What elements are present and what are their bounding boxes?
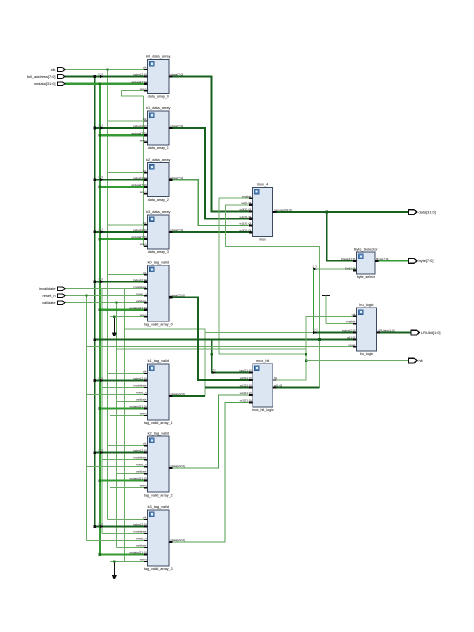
svg-text:clk: clk [143,221,147,225]
svg-text:wren: wren [140,242,147,246]
block mux_4 U9 [239,183,291,242]
svg-text:[2:0]: [2:0] [98,522,103,526]
wire wrdata feed to k1_tag_valid (bus) [99,407,148,410]
wire clk feed to k3_tag_valid [108,519,148,521]
wire wrdata feed to k1_data_array (bus) [99,134,148,137]
svg-text:enable: enable [242,194,252,198]
svg-text:Byte[7:0]: Byte[7:0] [376,257,388,261]
wire k2_data rdata to mux_4 w2 [169,180,252,226]
svg-text:wrdata[21:0]: wrdata[21:0] [129,477,146,481]
wire muxout to data output port (bus) [273,211,409,214]
wire tag+w dark row (bus) [93,338,356,341]
svg-text:reset_n: reset_n [136,292,147,296]
wire wren feed to k2_data_array [143,193,147,195]
svg-text:tag[21:0]: tag[21:0] [239,369,251,373]
svg-text:byte_select: byte_select [357,275,375,279]
svg-text:invalidate: invalidate [39,286,55,291]
net label tag arrow [212,368,216,374]
wire lru reset row [87,346,357,348]
svg-text:index[2:0]: index[2:0] [133,278,147,282]
block k3_data_array U4 [131,210,183,254]
svg-text:validate: validate [136,398,147,402]
svg-text:wren: wren [140,313,147,317]
wire index feed to k2_data_array (bus) [93,175,147,181]
svg-text:index[2:0]: index[2:0] [133,377,147,381]
wire validate feed to k2_tag_valid [116,473,147,475]
output port hit [409,358,424,363]
wire wren feed to k0_data_array [122,90,148,92]
svg-text:mux_4: mux_4 [257,183,268,187]
svg-text:invalidate: invalidate [133,456,146,460]
block mux_hit U12 [239,359,282,412]
wire wrdata feed to k2_data_array (bus) [99,186,148,189]
wire LRUbits to output port (bus) [376,332,411,334]
svg-text:data_array_1: data_array_1 [148,146,169,150]
input port wrdata[31:0] [34,81,65,86]
svg-text:k2_tag_valid: k2_tag_valid [148,431,169,435]
svg-text:invalidate: invalidate [133,384,146,388]
svg-text:[2:0]: [2:0] [98,175,103,179]
svg-text:byte[7:0]: byte[7:0] [419,258,434,263]
svg-text:full_address[7:0]: full_address[7:0] [27,74,56,79]
svg-text:[2:0]: [2:0] [98,376,103,380]
wire invalidate feed to k2_tag_valid [102,459,148,461]
svg-text:rdata[7:0]: rdata[7:0] [170,124,183,128]
wire mux_hit w[1:0] output (bus) [273,387,320,389]
svg-text:reset: reset [349,343,356,347]
svg-text:[1:0]: [1:0] [313,265,318,268]
wire clk feed to k3_data_array [108,224,148,226]
junction dot hit/enable [305,353,307,355]
wire wren feed to k3_data_array [143,245,147,247]
wire index bus trunk (full_address) vertical x=95 [94,77,96,527]
svg-text:reset_n: reset_n [136,391,147,395]
svg-text:w1[21:0]: w1[21:0] [240,384,252,388]
output port data[31:0] [409,209,436,214]
wire mux_4 enable from hit net [219,198,306,354]
svg-text:w1[31:0]: w1[31:0] [239,215,251,219]
svg-text:tag_valid_array_1: tag_valid_array_1 [144,421,173,425]
svg-text:tag_valid_array_3: tag_valid_array_3 [144,567,173,571]
wire validate input row [65,302,148,304]
svg-text:rdata[7:0]: rdata[7:0] [170,73,183,77]
svg-text:[2:0]: [2:0] [313,329,318,332]
svg-text:index[2:0]: index[2:0] [133,228,147,232]
wire wrdata feed to k3_data_array (bus) [99,238,148,241]
wire hit to output port [306,360,408,362]
wire reset_n input row [65,295,148,297]
wire wren feed to k3_tag_valid [110,561,148,563]
wire tag wren trunk vertical [124,289,126,562]
output port byte[7:0] [409,258,434,263]
svg-text:w3[31:0]: w3[31:0] [239,229,251,233]
wire reset_n feed to k2_tag_valid [87,466,148,468]
block k2_tag_valid U7 [129,431,185,497]
input port clk [51,67,65,72]
svg-text:tag_valid_array_2: tag_valid_array_2 [144,493,173,497]
svg-text:w0[31:0]: w0[31:0] [239,208,251,212]
svg-text:clk: clk [143,370,147,374]
svg-text:index[2:0]: index[2:0] [133,124,147,128]
svg-text:[2:0]: [2:0] [98,448,103,452]
svg-text:k0_data_array: k0_data_array [146,55,170,59]
svg-text:index[2:0]: index[2:0] [133,523,147,527]
svg-text:rdata[22:0]: rdata[22:0] [170,293,185,297]
wire reset_n feed to k3_tag_valid [87,540,148,542]
svg-text:data[31:0]: data[31:0] [419,209,436,214]
ground symbol below k3_tag_valid [112,560,117,578]
wire clk feed to k1_tag_valid [108,373,148,375]
block k0_tag_valid U5 [129,260,185,326]
wire address tap down to lru index [313,269,315,332]
svg-text:[2:0]: [2:0] [98,72,103,76]
wire validate feed to k3_tag_valid [116,547,147,549]
svg-text:rdata[7:0]: rdata[7:0] [170,176,183,180]
wire lru index row left segment with jog [125,329,314,332]
wire index feed to k2_tag_valid (bus) [93,448,147,454]
wire invalidate trunk vertical [101,289,103,534]
svg-text:k2_data_array: k2_data_array [146,158,170,162]
svg-text:w2[21:0]: w2[21:0] [240,391,252,395]
svg-text:k1_tag_valid: k1_tag_valid [148,359,169,363]
wire index feed to k3_data_array (bus) [93,227,147,233]
svg-text:wrdata[7:0]: wrdata[7:0] [131,183,146,187]
svg-text:reset_n: reset_n [136,463,147,467]
wire tie symbol to lru enable [322,296,357,324]
svg-text:wrdata[31:0]: wrdata[31:0] [34,81,55,86]
wire Sel row into Byte_Selector [313,265,357,270]
wire control row y349 [116,348,306,350]
svg-text:clk: clk [352,313,356,317]
wire muxout branch down to Byte_Selector Data (bus) [327,212,357,261]
svg-text:clk: clk [51,67,56,72]
svg-text:Data[31:0]: Data[31:0] [341,257,355,261]
svg-text:clk: clk [143,169,147,173]
wire clk feed to k2_data_array [108,172,148,174]
svg-text:index[2:0]: index[2:0] [133,176,147,180]
wire invalidate input row [65,288,148,290]
block k3_tag_valid U8 [129,505,185,571]
wire invalidate feed to k1_tag_valid [102,387,148,389]
wire mux_hit hit output net [273,316,357,380]
junction dot on enable row [211,353,213,355]
svg-text:wrdata[21:0]: wrdata[21:0] [129,306,146,310]
svg-text:wrdata[21:0]: wrdata[21:0] [129,405,146,409]
svg-text:wrdata[7:0]: wrdata[7:0] [131,80,146,84]
wire clk input row [65,69,148,71]
svg-text:mux_hit_logic: mux_hit_logic [252,408,274,412]
svg-text:clk: clk [143,271,147,275]
svg-text:wren: wren [140,190,147,194]
wire reset_n trunk vertical [86,296,88,541]
svg-text:validate: validate [136,299,147,303]
svg-text:wrdata[7:0]: wrdata[7:0] [131,235,146,239]
input port invalidate [39,286,65,291]
wire wren feed to k1_tag_valid [110,415,148,417]
svg-text:data_array_3: data_array_3 [148,250,169,254]
junction arrow lru index [313,329,318,334]
svg-text:invalidate: invalidate [133,285,146,289]
ground symbol below k0_tag_valid [112,316,117,337]
wire index feed to k0_tag_valid (bus) [93,277,147,283]
wire k1_tag rdata to mux_hit w1 (bus) [169,388,253,397]
svg-text:index[2:0]: index[2:0] [342,329,356,333]
block k0_data_array U1 [131,55,183,99]
svg-text:LRUbit[1:0]: LRUbit[1:0] [421,330,440,335]
wire wrdata bus trunk vertical x=100 [99,84,101,555]
svg-text:wrdata[7:0]: wrdata[7:0] [131,131,146,135]
svg-text:tag: tag [212,368,216,372]
svg-text:w2[31:0]: w2[31:0] [239,222,251,226]
wire Byte to output port (bus) [375,260,409,262]
svg-text:Byte_Selector: Byte_Selector [354,247,378,251]
net label full_address bit-select [98,72,103,76]
svg-text:w[1:0]: w[1:0] [347,336,355,340]
svg-text:lru_logic: lru_logic [359,303,373,307]
block Byte_Selector U10 [341,247,388,279]
wire sel feed row and drop to mux_hit w [226,247,320,388]
wire k0_tag rdata to mux_hit w0 (bus) [169,297,253,380]
svg-text:tag_valid_array_0: tag_valid_array_0 [144,322,173,326]
svg-text:k3_data_array: k3_data_array [146,210,170,214]
svg-text:validate: validate [136,544,147,548]
block k1_tag_valid U6 [129,359,185,425]
wire wren feed jog at k0_data_array [122,91,144,97]
svg-text:reset_n: reset_n [136,537,147,541]
svg-text:[2:0]: [2:0] [98,277,103,281]
wire wrdata feed to k3_tag_valid (bus) [99,553,148,556]
wire k3_tag rdata to mux_hit w3 [169,403,253,543]
block k2_data_array U3 [131,158,183,202]
svg-text:w[1:0]: w[1:0] [274,384,282,388]
input port full_address[7:0] [27,74,65,79]
wire clk trunk vertical [107,70,109,520]
svg-text:validate: validate [136,470,147,474]
wire invalidate feed to k3_tag_valid [102,533,148,535]
junction dot hit row [305,359,307,361]
wire wrdata input row (bus) [65,82,148,85]
svg-text:invalidate: invalidate [133,530,146,534]
wire data wren trunk vertical [142,96,144,246]
svg-text:mux: mux [259,238,266,242]
svg-text:w0[21:0]: w0[21:0] [240,376,252,380]
svg-text:wren: wren [140,484,147,488]
svg-text:data_array_0: data_array_0 [148,95,169,99]
wire wren feed to k1_data_array [143,141,147,143]
svg-text:mux_hit: mux_hit [256,359,270,363]
svg-text:k0_tag_valid: k0_tag_valid [148,260,169,264]
wire lru index row bus segment [314,332,357,334]
svg-text:clk: clk [143,117,147,121]
svg-text:wrdata[21:0]: wrdata[21:0] [129,551,146,555]
block k1_data_array U2 [131,106,183,150]
wire full_address input row (bus) [65,75,148,78]
wire clk feed to k2_tag_valid [108,445,148,447]
wire wrdata feed to k0_tag_valid (bus) [99,308,148,311]
svg-text:reset_n: reset_n [43,293,56,298]
svg-text:clk: clk [143,516,147,520]
wire reset_n feed to k1_tag_valid [87,394,148,396]
svg-text:muxout[31:0]: muxout[31:0] [274,208,292,212]
svg-text:wren: wren [140,558,147,562]
wire validate trunk vertical [115,303,117,548]
wire k2_tag rdata to mux_hit w2 [169,395,253,468]
svg-text:rdata[7:0]: rdata[7:0] [170,228,183,232]
svg-text:index[2:0]: index[2:0] [133,449,147,453]
svg-text:lru_logic: lru_logic [360,352,374,356]
svg-text:w3[21:0]: w3[21:0] [240,399,252,403]
svg-text:rdata[22:0]: rdata[22:0] [170,538,185,542]
input port validate [42,300,65,305]
wire validate feed to k1_tag_valid [116,401,147,403]
svg-text:LRUbits[1:0]: LRUbits[1:0] [378,329,395,333]
svg-text:hit: hit [274,376,277,380]
wire index feed to k3_tag_valid (bus) [93,522,147,528]
svg-text:k3_tag_valid: k3_tag_valid [148,505,169,509]
wire wren feed to k2_tag_valid [110,487,148,489]
svg-text:clk: clk [143,66,147,70]
svg-text:Sel[1:0]: Sel[1:0] [345,267,356,271]
block lru_logic U11 [342,303,395,356]
svg-text:data_array_2: data_array_2 [148,198,169,202]
wire clk feed to k1_data_array [108,120,148,122]
svg-text:wren: wren [140,138,147,142]
wire wrdata feed to k2_tag_valid (bus) [99,479,148,482]
svg-text:k1_data_array: k1_data_array [146,106,170,110]
svg-text:sel[1:0]: sel[1:0] [241,201,251,205]
wire k1 jog vertical [204,333,206,397]
wire index feed to k1_tag_valid (bus) [93,376,147,382]
svg-text:rdata[22:0]: rdata[22:0] [170,392,185,396]
svg-text:wren: wren [140,87,147,91]
svg-text:clk: clk [143,442,147,446]
wire clk feed to k0_tag_valid [108,274,148,276]
svg-text:enable: enable [346,320,356,324]
output port LRUbit[1:0] [411,330,440,335]
svg-text:wren: wren [140,412,147,416]
svg-text:index[2:0]: index[2:0] [133,73,147,77]
wire mux_4 sel from w net [226,205,253,247]
wire k0_data rdata to mux_4 w0 (bus) [169,77,252,212]
svg-text:rdata[22:0]: rdata[22:0] [170,464,185,468]
wire k1_data rdata to mux_4 w1 (bus) [169,128,252,219]
svg-text:[2:0]: [2:0] [98,227,103,231]
svg-text:validate: validate [42,300,55,305]
input port reset_n [43,293,65,298]
wire index feed to k1_data_array (bus) [93,123,147,129]
wire tag vertical into mux_hit tag (bus) [212,340,253,373]
svg-text:[2:0]: [2:0] [98,123,103,127]
wire wren feed to k0_tag_valid [110,316,148,318]
wire k3_data rdata to mux_4 w3 (bus) [169,231,252,233]
